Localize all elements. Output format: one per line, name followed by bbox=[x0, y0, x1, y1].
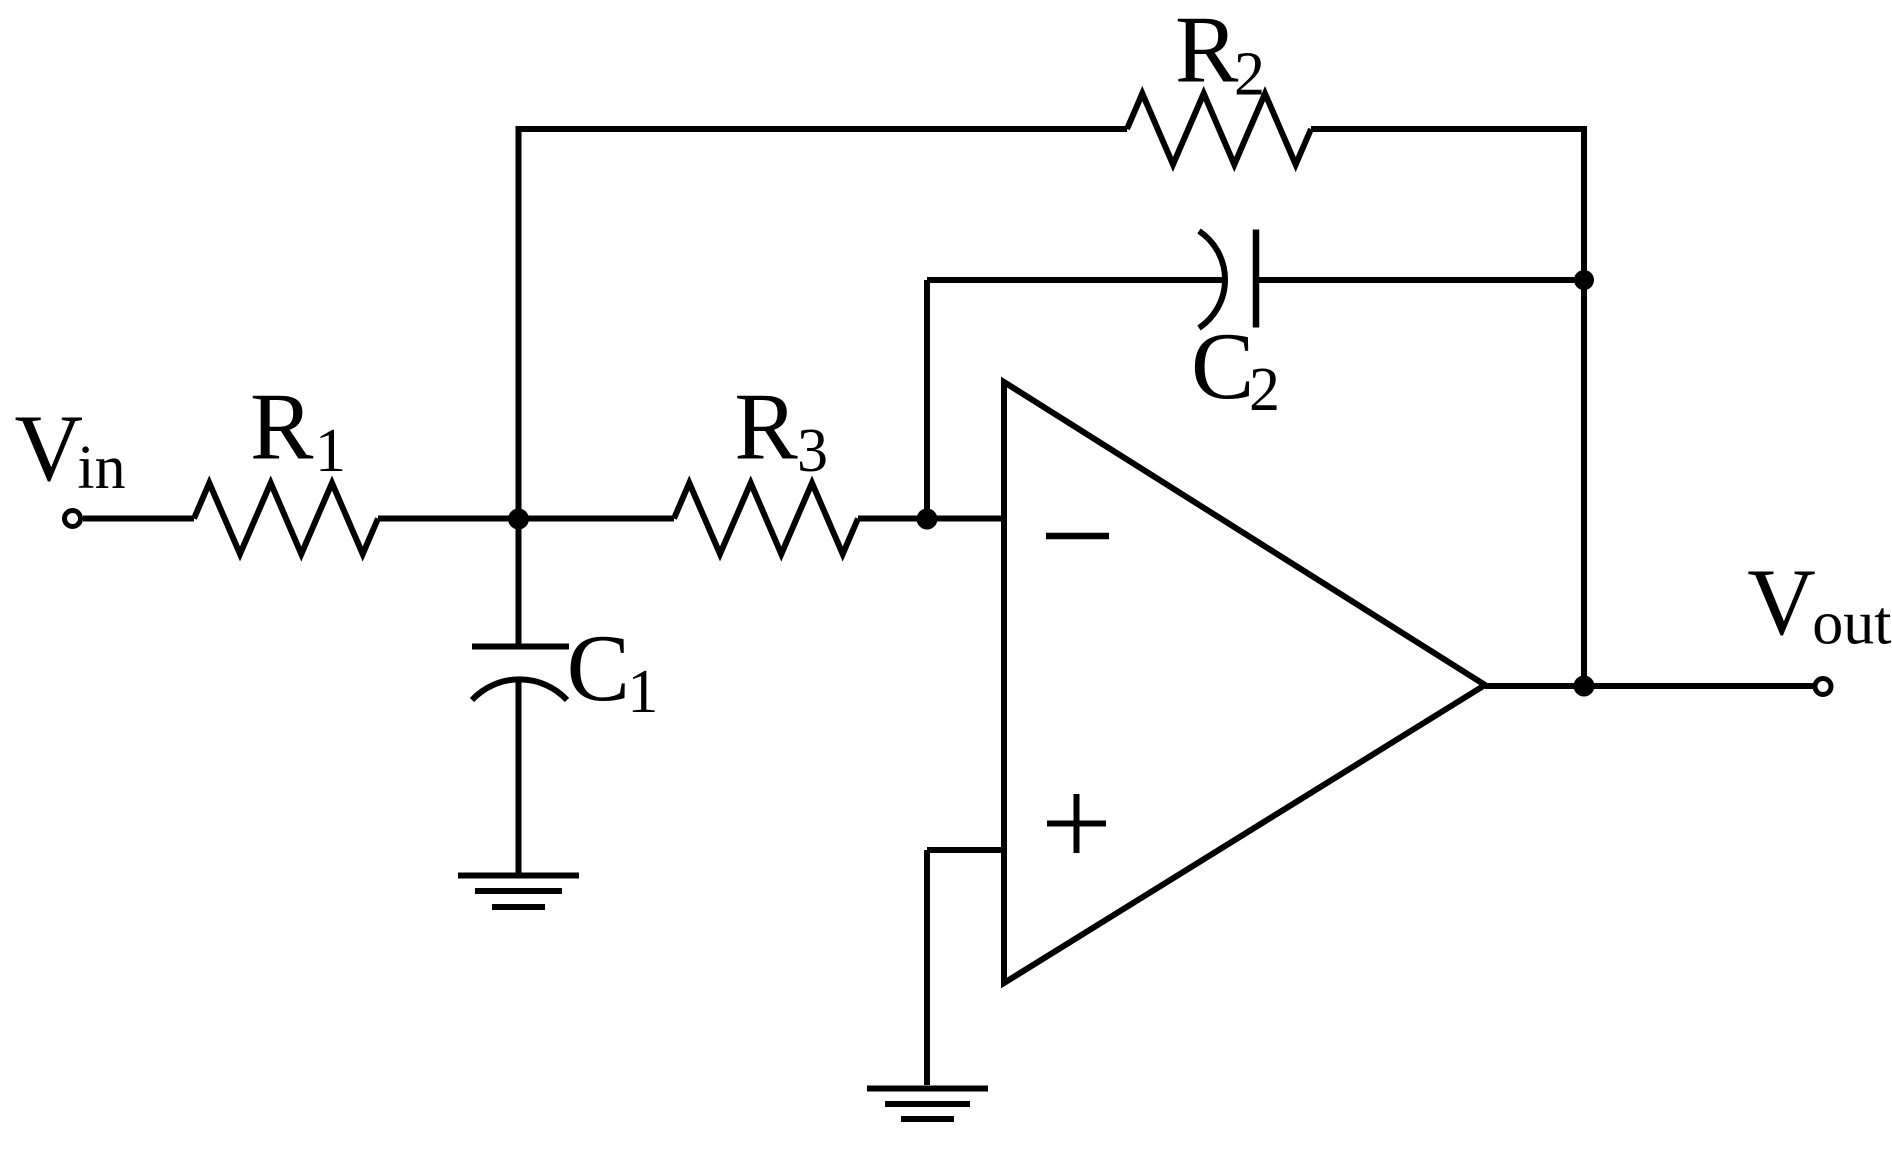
wire Vin to R1 bbox=[83, 516, 194, 522]
resistor R1 bbox=[194, 483, 378, 554]
wire top feedback right segment bbox=[1311, 126, 1584, 132]
node C2/R2 feedback junction dot bbox=[1574, 270, 1594, 290]
wire R1 to node A and on to R3 bbox=[378, 516, 674, 522]
op-amp minus sign bbox=[1046, 533, 1109, 540]
capacitor C2 straight plate bbox=[1253, 230, 1260, 328]
svg-text:2: 2 bbox=[1234, 41, 1265, 109]
wire top feedback left segment bbox=[516, 126, 1128, 132]
resistor R2 bbox=[1127, 94, 1311, 165]
label C2 bbox=[1191, 313, 1280, 424]
label R3 bbox=[734, 374, 828, 486]
svg-text:3: 3 bbox=[797, 417, 828, 485]
wire C2 row left vertical from inverting node bbox=[924, 280, 930, 519]
wire non-inverting down to ground bbox=[924, 850, 930, 1085]
capacitor C1 straight plate bbox=[472, 644, 569, 650]
wire op-amp output bbox=[1485, 683, 1815, 689]
svg-text:C: C bbox=[1191, 313, 1254, 419]
node Vin terminal bbox=[65, 511, 81, 527]
wire op-amp non-inverting stub bbox=[927, 847, 1004, 853]
label Vout bbox=[1747, 549, 1891, 658]
node A junction dot bbox=[508, 509, 529, 530]
label C1 bbox=[567, 615, 659, 726]
op-amp U1 triangle bbox=[1004, 382, 1485, 983]
label R2 bbox=[1175, 0, 1265, 109]
svg-text:V: V bbox=[1747, 549, 1816, 655]
wire R3 to op-amp inverting input bbox=[858, 516, 1004, 522]
capacitor C1 curved plate bbox=[472, 679, 567, 700]
node inverting input junction dot bbox=[917, 509, 938, 530]
wire C2 row horizontal left bbox=[927, 277, 1224, 283]
svg-text:1: 1 bbox=[627, 658, 658, 726]
svg-text:out: out bbox=[1812, 590, 1891, 658]
label R1 bbox=[250, 374, 346, 486]
svg-text:R: R bbox=[1175, 0, 1239, 103]
wire C1 down to ground bbox=[516, 680, 522, 875]
svg-text:V: V bbox=[15, 395, 84, 501]
op-amp plus sign bbox=[1047, 794, 1106, 853]
capacitor C2 curved plate bbox=[1199, 231, 1225, 328]
svg-text:1: 1 bbox=[315, 417, 346, 485]
svg-text:2: 2 bbox=[1249, 356, 1280, 424]
svg-text:C: C bbox=[567, 615, 630, 721]
label Vin bbox=[15, 395, 126, 502]
ground (C1) bbox=[458, 876, 579, 908]
wire C2 to right vertical bbox=[1259, 277, 1584, 283]
wire vertical from top feedback corner through node A down to C1 bbox=[516, 129, 522, 647]
svg-text:R: R bbox=[250, 374, 314, 480]
svg-text:in: in bbox=[77, 434, 125, 502]
ground (op-amp non-inverting) bbox=[867, 1089, 988, 1120]
node Vout terminal bbox=[1815, 679, 1831, 695]
svg-text:R: R bbox=[734, 374, 798, 480]
wire right vertical feedback down to output node bbox=[1581, 126, 1587, 686]
node output junction dot bbox=[1574, 676, 1595, 697]
resistor R3 bbox=[674, 483, 858, 554]
